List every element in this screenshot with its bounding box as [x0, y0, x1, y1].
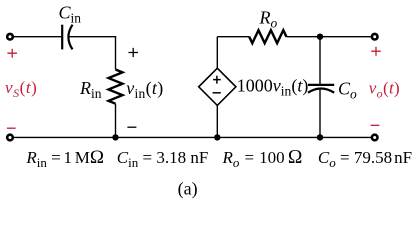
wire: Rin bottom to bottom rail: [115, 104, 117, 138]
resistor Rin (vertical zigzag): [109, 70, 123, 104]
wire: top-left terminal to capacitor Cin: [13, 36, 62, 38]
capacitor C2 (Co) plates: [308, 85, 334, 93]
junction node below Co: [317, 134, 323, 140]
wire: source bottom to bottom rail: [216, 105, 218, 137]
svg-text:vin(t): vin(t): [126, 78, 163, 101]
svg-text:Co: Co: [338, 79, 357, 102]
svg-text:Ro: Ro: [259, 8, 278, 31]
wire: Co bottom to bottom rail: [319, 89, 321, 138]
wire: source top to top rail: [216, 37, 218, 68]
red minus bottom-right: [371, 124, 380, 126]
wire: top rail right of Ro to output terminal: [286, 36, 371, 38]
svg-text:Cin: Cin: [59, 2, 82, 25]
junction node below Rin: [112, 134, 118, 140]
black plus for vin: [128, 48, 138, 57]
wire: top rail left of Ro: [217, 36, 249, 38]
input terminal bottom-left: [7, 135, 13, 141]
wire: top rail down to Co: [319, 37, 321, 85]
plus sign inside source: [213, 76, 221, 84]
junction node below dependent source: [214, 134, 220, 140]
dependent source U1 diamond: [199, 68, 236, 105]
junction node top of Co: [317, 34, 323, 40]
svg-text:(a): (a): [178, 179, 198, 200]
black minus for vin: [127, 126, 136, 128]
minus sign inside source: [213, 92, 221, 94]
input terminal top-left: [7, 34, 13, 40]
svg-text:vS(t): vS(t): [5, 78, 37, 100]
svg-text:1000vin(t): 1000vin(t): [237, 76, 309, 99]
red minus bottom-left: [7, 127, 16, 129]
output terminal top-right: [372, 34, 378, 40]
bottom rail wire: [13, 136, 371, 138]
capacitor C1 (Cin) plates: [62, 25, 72, 50]
red plus top-right: [371, 47, 381, 56]
red plus top-left: [7, 49, 17, 58]
output terminal bottom-right: [372, 135, 378, 141]
wire: capacitor to corner and down to Rin: [69, 37, 116, 70]
svg-text:Rin: Rin: [79, 78, 102, 101]
svg-text:Co = 79.58 nF: Co = 79.58 nF: [318, 148, 412, 170]
svg-text:vo(t): vo(t): [369, 79, 400, 101]
resistor Ro (horizontal zigzag): [249, 30, 286, 43]
svg-text:Ro = 100 Ω: Ro = 100 Ω: [222, 147, 303, 170]
svg-text:Cin = 3.18 nF: Cin = 3.18 nF: [117, 148, 209, 170]
svg-text:Rin = 1 MΩ: Rin = 1 MΩ: [25, 147, 104, 170]
